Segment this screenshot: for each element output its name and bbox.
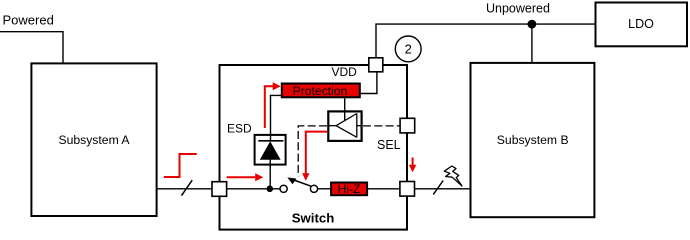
svg-text:Protection: Protection bbox=[293, 84, 348, 98]
protection block bbox=[282, 84, 360, 98]
wire pad A to node bbox=[227, 188, 280, 190]
wire Powered to Subsystem A bbox=[0, 32, 63, 63]
buffer U1 box bbox=[328, 111, 361, 140]
switch box bbox=[220, 65, 408, 230]
slash (bus mark) on B wire bbox=[433, 181, 443, 195]
switch contact circle left bbox=[280, 185, 287, 192]
svg-text:Hi-Z: Hi-Z bbox=[338, 182, 361, 196]
wire ESD diode anode stub bbox=[269, 160, 271, 168]
pin pad SEL (right) bbox=[400, 118, 415, 133]
slash (bus mark) on A wire bbox=[182, 180, 193, 195]
pin pad VDD (top) bbox=[369, 58, 383, 72]
wire rail down to Subsystem B bbox=[531, 24, 533, 63]
svg-text:Unpowered: Unpowered bbox=[486, 2, 550, 16]
subsystem A box bbox=[31, 63, 156, 216]
wire Subsystem A to left pad bbox=[157, 188, 212, 190]
svg-text:LDO: LDO bbox=[628, 17, 654, 31]
red arrow SEL down bbox=[409, 158, 416, 173]
red arrow buffer to lever bbox=[302, 132, 327, 181]
wire ESD diode to Protection bbox=[271, 95, 282, 140]
red step waveform symbol bbox=[164, 154, 197, 177]
wire right circle to Hi-Z bbox=[318, 188, 331, 190]
Hi-Z block bbox=[331, 183, 367, 196]
ESD diode symbol bbox=[258, 141, 283, 160]
svg-text:SEL: SEL bbox=[377, 138, 401, 152]
lightning surge symbol bbox=[444, 166, 462, 186]
wire Protection to VDD pad bbox=[361, 72, 377, 94]
junction dot on top rail bbox=[528, 20, 537, 29]
callout circle 2 bbox=[395, 36, 421, 62]
pin pad B (right) bbox=[400, 182, 415, 197]
svg-text:2: 2 bbox=[405, 42, 412, 57]
wire node up to ESD diode bbox=[269, 164, 271, 189]
svg-text:Switch: Switch bbox=[292, 210, 335, 225]
svg-text:ESD: ESD bbox=[227, 122, 252, 136]
switch lever with arrowhead bbox=[287, 177, 311, 186]
svg-text:Subsystem B: Subsystem B bbox=[497, 133, 569, 147]
pin pad A (left) bbox=[212, 182, 227, 197]
svg-text:VDD: VDD bbox=[332, 65, 358, 79]
wire pad B to Subsystem B bbox=[415, 188, 471, 190]
svg-text:Subsystem A: Subsystem A bbox=[58, 133, 130, 147]
wire VDD pad to top rail bbox=[376, 24, 596, 58]
dashed control line buffer to lever bbox=[298, 126, 327, 177]
LDO box bbox=[596, 3, 688, 47]
buffer U1 triangle bbox=[329, 114, 361, 138]
dashed control line buffer to SEL pad bbox=[363, 125, 400, 127]
red arrow ESD path to Protection bbox=[265, 82, 281, 128]
wire Hi-Z to pad B bbox=[367, 188, 400, 190]
wire Protection down to buffer U1 bbox=[344, 98, 346, 120]
red arrow into node bbox=[227, 173, 264, 181]
node junction dot bbox=[267, 186, 274, 193]
svg-text:Powered: Powered bbox=[3, 13, 54, 28]
ESD diode D1 box bbox=[255, 135, 286, 165]
switch contact circle right bbox=[310, 185, 317, 192]
subsystem B box bbox=[471, 63, 595, 217]
